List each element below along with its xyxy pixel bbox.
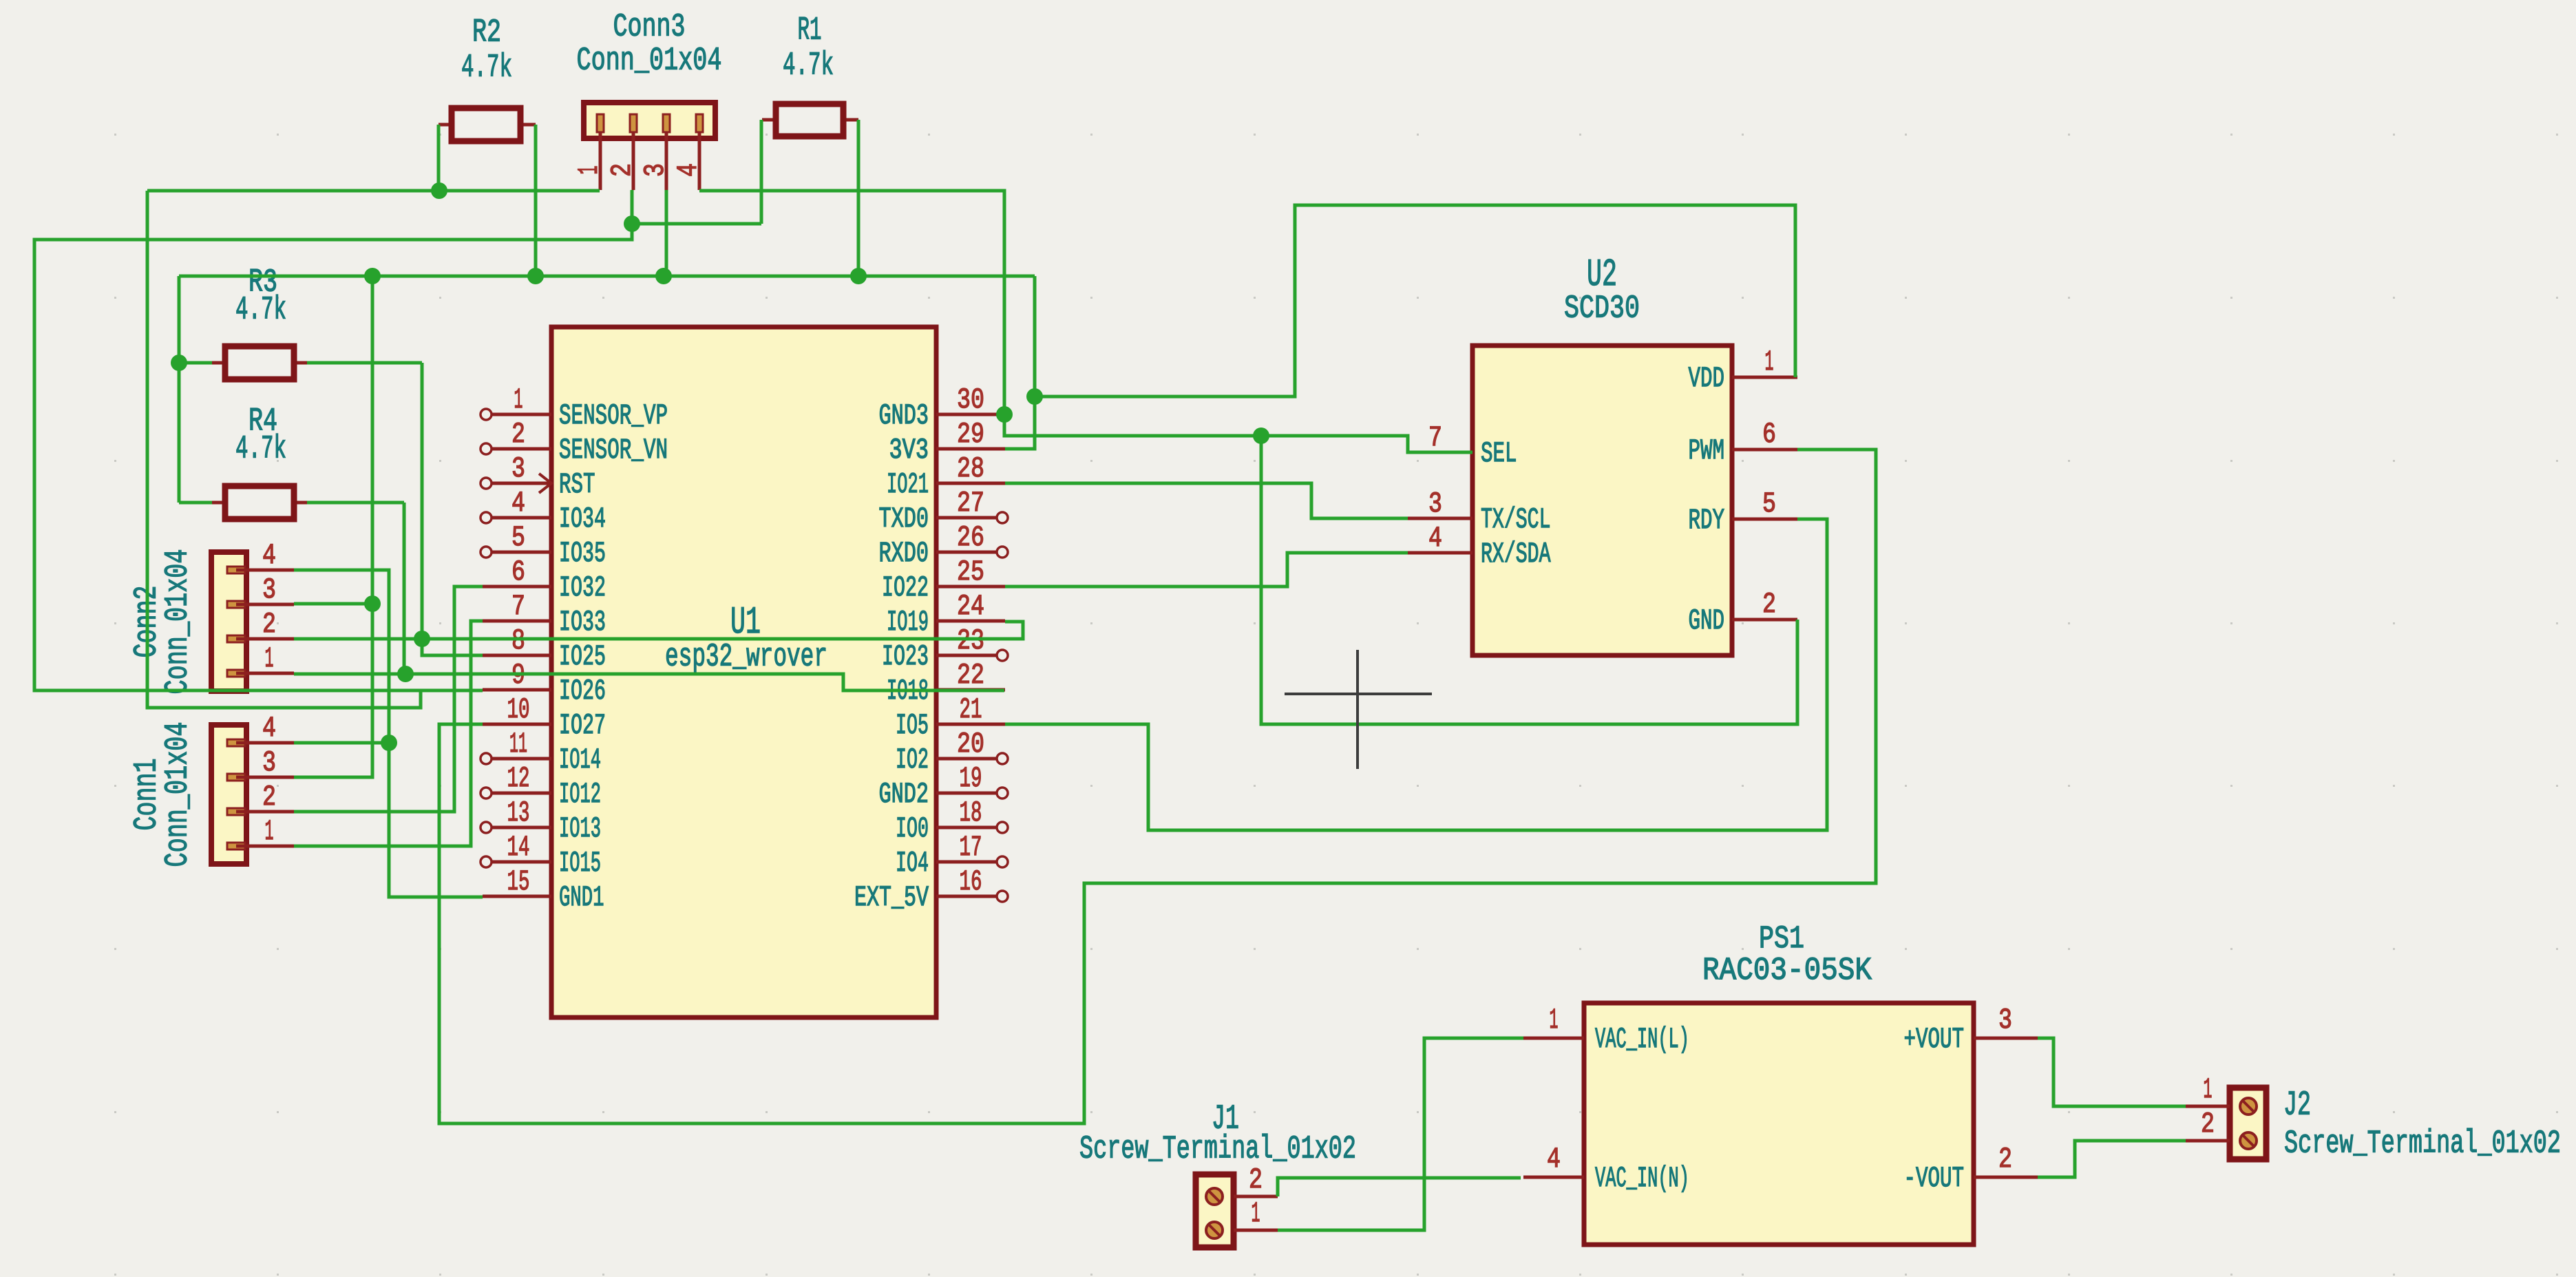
svg-text:Screw_Terminal_01x02: Screw_Terminal_01x02 <box>2284 1126 2561 1163</box>
svg-text:IO26: IO26 <box>559 675 606 708</box>
svg-text:IO19: IO19 <box>887 606 929 639</box>
svg-text:4.7k: 4.7k <box>235 293 286 329</box>
svg-text:RX/SDA: RX/SDA <box>1481 538 1551 571</box>
svg-text:IO15: IO15 <box>559 847 601 880</box>
svg-text:24: 24 <box>957 590 984 623</box>
svg-text:10: 10 <box>507 693 530 726</box>
svg-text:+VOUT: +VOUT <box>1904 1023 1965 1056</box>
svg-text:28: 28 <box>957 452 984 485</box>
svg-text:6: 6 <box>1762 418 1776 451</box>
svg-text:1: 1 <box>1550 1004 1559 1037</box>
svg-text:2: 2 <box>262 608 276 641</box>
svg-text:TXD0: TXD0 <box>879 503 929 536</box>
svg-text:GND2: GND2 <box>879 778 929 811</box>
svg-text:19: 19 <box>960 762 982 795</box>
svg-text:29: 29 <box>957 418 984 451</box>
svg-text:RST: RST <box>559 468 595 501</box>
svg-text:R1: R1 <box>798 13 822 50</box>
svg-text:22: 22 <box>957 659 984 692</box>
svg-text:J2: J2 <box>2283 1086 2311 1126</box>
svg-text:17: 17 <box>960 831 982 864</box>
svg-text:IO14: IO14 <box>559 743 601 777</box>
svg-text:IO12: IO12 <box>559 778 601 811</box>
svg-text:13: 13 <box>507 796 530 830</box>
svg-text:20: 20 <box>957 728 984 761</box>
svg-text:4.7k: 4.7k <box>235 432 286 468</box>
svg-text:7: 7 <box>511 590 525 623</box>
svg-text:R2: R2 <box>472 15 501 52</box>
svg-text:11: 11 <box>509 728 527 761</box>
svg-text:IO25: IO25 <box>559 640 606 673</box>
svg-text:3V3: 3V3 <box>889 434 929 467</box>
svg-text:EXT_5V: EXT_5V <box>854 881 929 914</box>
svg-text:2: 2 <box>1762 588 1776 621</box>
svg-text:3: 3 <box>1428 487 1442 520</box>
svg-text:SEL: SEL <box>1481 437 1517 470</box>
svg-text:1: 1 <box>1765 346 1774 379</box>
svg-text:18: 18 <box>960 796 982 830</box>
svg-text:1: 1 <box>1252 1197 1260 1230</box>
svg-text:4.7k: 4.7k <box>783 48 834 85</box>
svg-text:4.7k: 4.7k <box>461 50 512 87</box>
svg-text:IO27: IO27 <box>559 709 606 742</box>
svg-text:U2: U2 <box>1587 253 1617 297</box>
svg-text:IO21: IO21 <box>887 468 929 501</box>
svg-text:16: 16 <box>960 865 982 898</box>
svg-text:1: 1 <box>514 383 523 416</box>
svg-text:6: 6 <box>511 556 525 589</box>
svg-text:-VOUT: -VOUT <box>1904 1162 1965 1195</box>
svg-text:12: 12 <box>507 762 530 795</box>
svg-text:Conn3: Conn3 <box>613 10 686 46</box>
svg-text:3: 3 <box>511 452 525 485</box>
svg-text:PS1: PS1 <box>1759 921 1804 957</box>
svg-text:27: 27 <box>957 487 984 520</box>
svg-text:IO22: IO22 <box>882 571 929 604</box>
svg-text:14: 14 <box>507 831 530 864</box>
svg-text:Screw_Terminal_01x02: Screw_Terminal_01x02 <box>1079 1132 1356 1168</box>
svg-text:26: 26 <box>957 521 984 554</box>
svg-text:21: 21 <box>960 693 982 726</box>
svg-text:SCD30: SCD30 <box>1564 291 1640 328</box>
svg-text:IO33: IO33 <box>559 606 606 639</box>
svg-text:4: 4 <box>1547 1143 1561 1176</box>
svg-text:GND3: GND3 <box>879 399 929 432</box>
svg-text:IO35: IO35 <box>559 537 606 570</box>
svg-text:3: 3 <box>639 163 672 177</box>
svg-text:esp32_wrover: esp32_wrover <box>665 640 827 676</box>
svg-text:2: 2 <box>262 781 276 814</box>
svg-text:VAC_IN(N): VAC_IN(N) <box>1595 1162 1689 1195</box>
svg-text:IO5: IO5 <box>896 709 929 742</box>
svg-text:RAC03-05SK: RAC03-05SK <box>1702 953 1872 989</box>
svg-text:4: 4 <box>262 712 276 745</box>
svg-text:8: 8 <box>511 624 525 657</box>
svg-text:SENSOR_VP: SENSOR_VP <box>559 399 668 432</box>
svg-text:2: 2 <box>2201 1108 2215 1141</box>
svg-text:4: 4 <box>262 539 276 572</box>
svg-text:2: 2 <box>511 418 525 451</box>
svg-text:IO34: IO34 <box>559 503 606 536</box>
svg-text:RDY: RDY <box>1689 504 1725 537</box>
svg-text:PWM: PWM <box>1689 434 1725 467</box>
svg-text:25: 25 <box>957 556 984 589</box>
svg-text:5: 5 <box>1762 487 1776 520</box>
svg-text:1: 1 <box>2204 1073 2213 1106</box>
svg-text:4: 4 <box>1428 522 1442 555</box>
svg-text:SENSOR_VN: SENSOR_VN <box>559 434 668 467</box>
svg-text:VAC_IN(L): VAC_IN(L) <box>1595 1023 1689 1056</box>
svg-text:IO23: IO23 <box>882 640 929 673</box>
svg-text:2: 2 <box>606 163 639 177</box>
svg-text:1: 1 <box>265 815 274 848</box>
svg-text:15: 15 <box>507 865 530 898</box>
svg-text:5: 5 <box>511 521 525 554</box>
svg-text:TX/SCL: TX/SCL <box>1481 503 1551 536</box>
svg-text:1: 1 <box>573 166 606 175</box>
svg-text:2: 2 <box>1998 1143 2012 1176</box>
svg-text:7: 7 <box>1428 421 1442 454</box>
svg-text:Conn_01x04: Conn_01x04 <box>160 722 197 867</box>
svg-text:IO13: IO13 <box>559 812 601 845</box>
svg-text:3: 3 <box>262 573 276 606</box>
svg-text:IO0: IO0 <box>896 812 929 845</box>
svg-text:RXD0: RXD0 <box>879 537 929 570</box>
svg-text:23: 23 <box>957 624 984 657</box>
svg-text:IO32: IO32 <box>559 571 606 604</box>
svg-text:VDD: VDD <box>1689 362 1725 395</box>
svg-text:4: 4 <box>672 163 705 177</box>
svg-text:3: 3 <box>1998 1004 2012 1037</box>
svg-text:IO4: IO4 <box>896 847 929 880</box>
svg-text:30: 30 <box>957 383 984 416</box>
svg-text:IO2: IO2 <box>896 743 929 777</box>
svg-text:Conn_01x04: Conn_01x04 <box>160 549 197 695</box>
svg-text:2: 2 <box>1249 1163 1263 1196</box>
svg-text:1: 1 <box>265 642 274 675</box>
svg-text:3: 3 <box>262 746 276 779</box>
svg-text:GND1: GND1 <box>559 881 604 914</box>
svg-text:4: 4 <box>511 487 525 520</box>
svg-text:GND: GND <box>1689 604 1725 637</box>
svg-text:Conn_01x04: Conn_01x04 <box>577 43 722 80</box>
